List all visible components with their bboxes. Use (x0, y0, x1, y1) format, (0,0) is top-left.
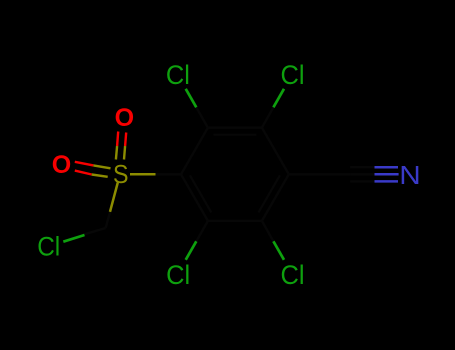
svg-text:S: S (113, 159, 129, 189)
svg-text:Cl: Cl (37, 232, 60, 262)
wire: carbon half of bond CH2-Cl(far-left) (83, 228, 105, 235)
wire: carbon half of bond S-CH2 (106, 211, 111, 229)
bond S-C(ring) olive half (130, 173, 156, 176)
svg-text:Cl: Cl (281, 260, 305, 290)
double bond S=O (top O), line 1 red half (117, 132, 118, 147)
double bond S=O (left O), line 1 red half (75, 162, 94, 166)
double bond S=O (left O), line 2 olive half (92, 175, 108, 177)
wire: carbon half of bond S-C(ring) (156, 173, 182, 175)
double bond S=O (top O), line 2 red half (125, 133, 126, 147)
svg-text:O: O (52, 151, 72, 179)
double bond S=O (left O), line 2 red half (75, 171, 92, 175)
svg-text:O: O (115, 104, 135, 132)
svg-text:Cl: Cl (281, 60, 305, 90)
double bond S=O (top O), line 1 olive half (116, 146, 117, 160)
wire: carbon half of bond C1-Cl(top-left) (196, 107, 208, 127)
bond S-CH2 olive half (110, 183, 118, 212)
svg-text:Cl: Cl (166, 60, 190, 90)
wire: carbon half of bond C2-Cl(top-right) (262, 107, 274, 127)
wire: carbon halves of C#N triple bond (350, 167, 374, 181)
bond C2-Cl top-right (green half) (273, 89, 284, 108)
double bond S=O (left O), line 1 olive half (93, 165, 110, 168)
wire: carbon half of bond C5-Cl(bottom-right) (262, 221, 274, 241)
double bond S=O (top O), line 2 olive half (124, 146, 125, 160)
svg-text:N: N (399, 160, 421, 190)
bond CH2-Cl far-left (green half) (63, 235, 84, 242)
ring inner double-bond lines (190, 135, 280, 213)
bond C5-Cl bottom-right (green half) (273, 241, 284, 259)
bond C1-Cl top-left (green half) (186, 89, 197, 108)
triple bond C#N blue halves (3 lines) (375, 167, 399, 181)
wire: bond ring-C to nitrile C (289, 173, 350, 175)
svg-text:Cl: Cl (166, 260, 190, 290)
bond C4-Cl bottom-left (green half) (186, 241, 197, 259)
wire: carbon half of bond C4-Cl(bottom-left) (196, 221, 208, 241)
benzene ring (carbon bonds, near-black) (181, 128, 289, 221)
